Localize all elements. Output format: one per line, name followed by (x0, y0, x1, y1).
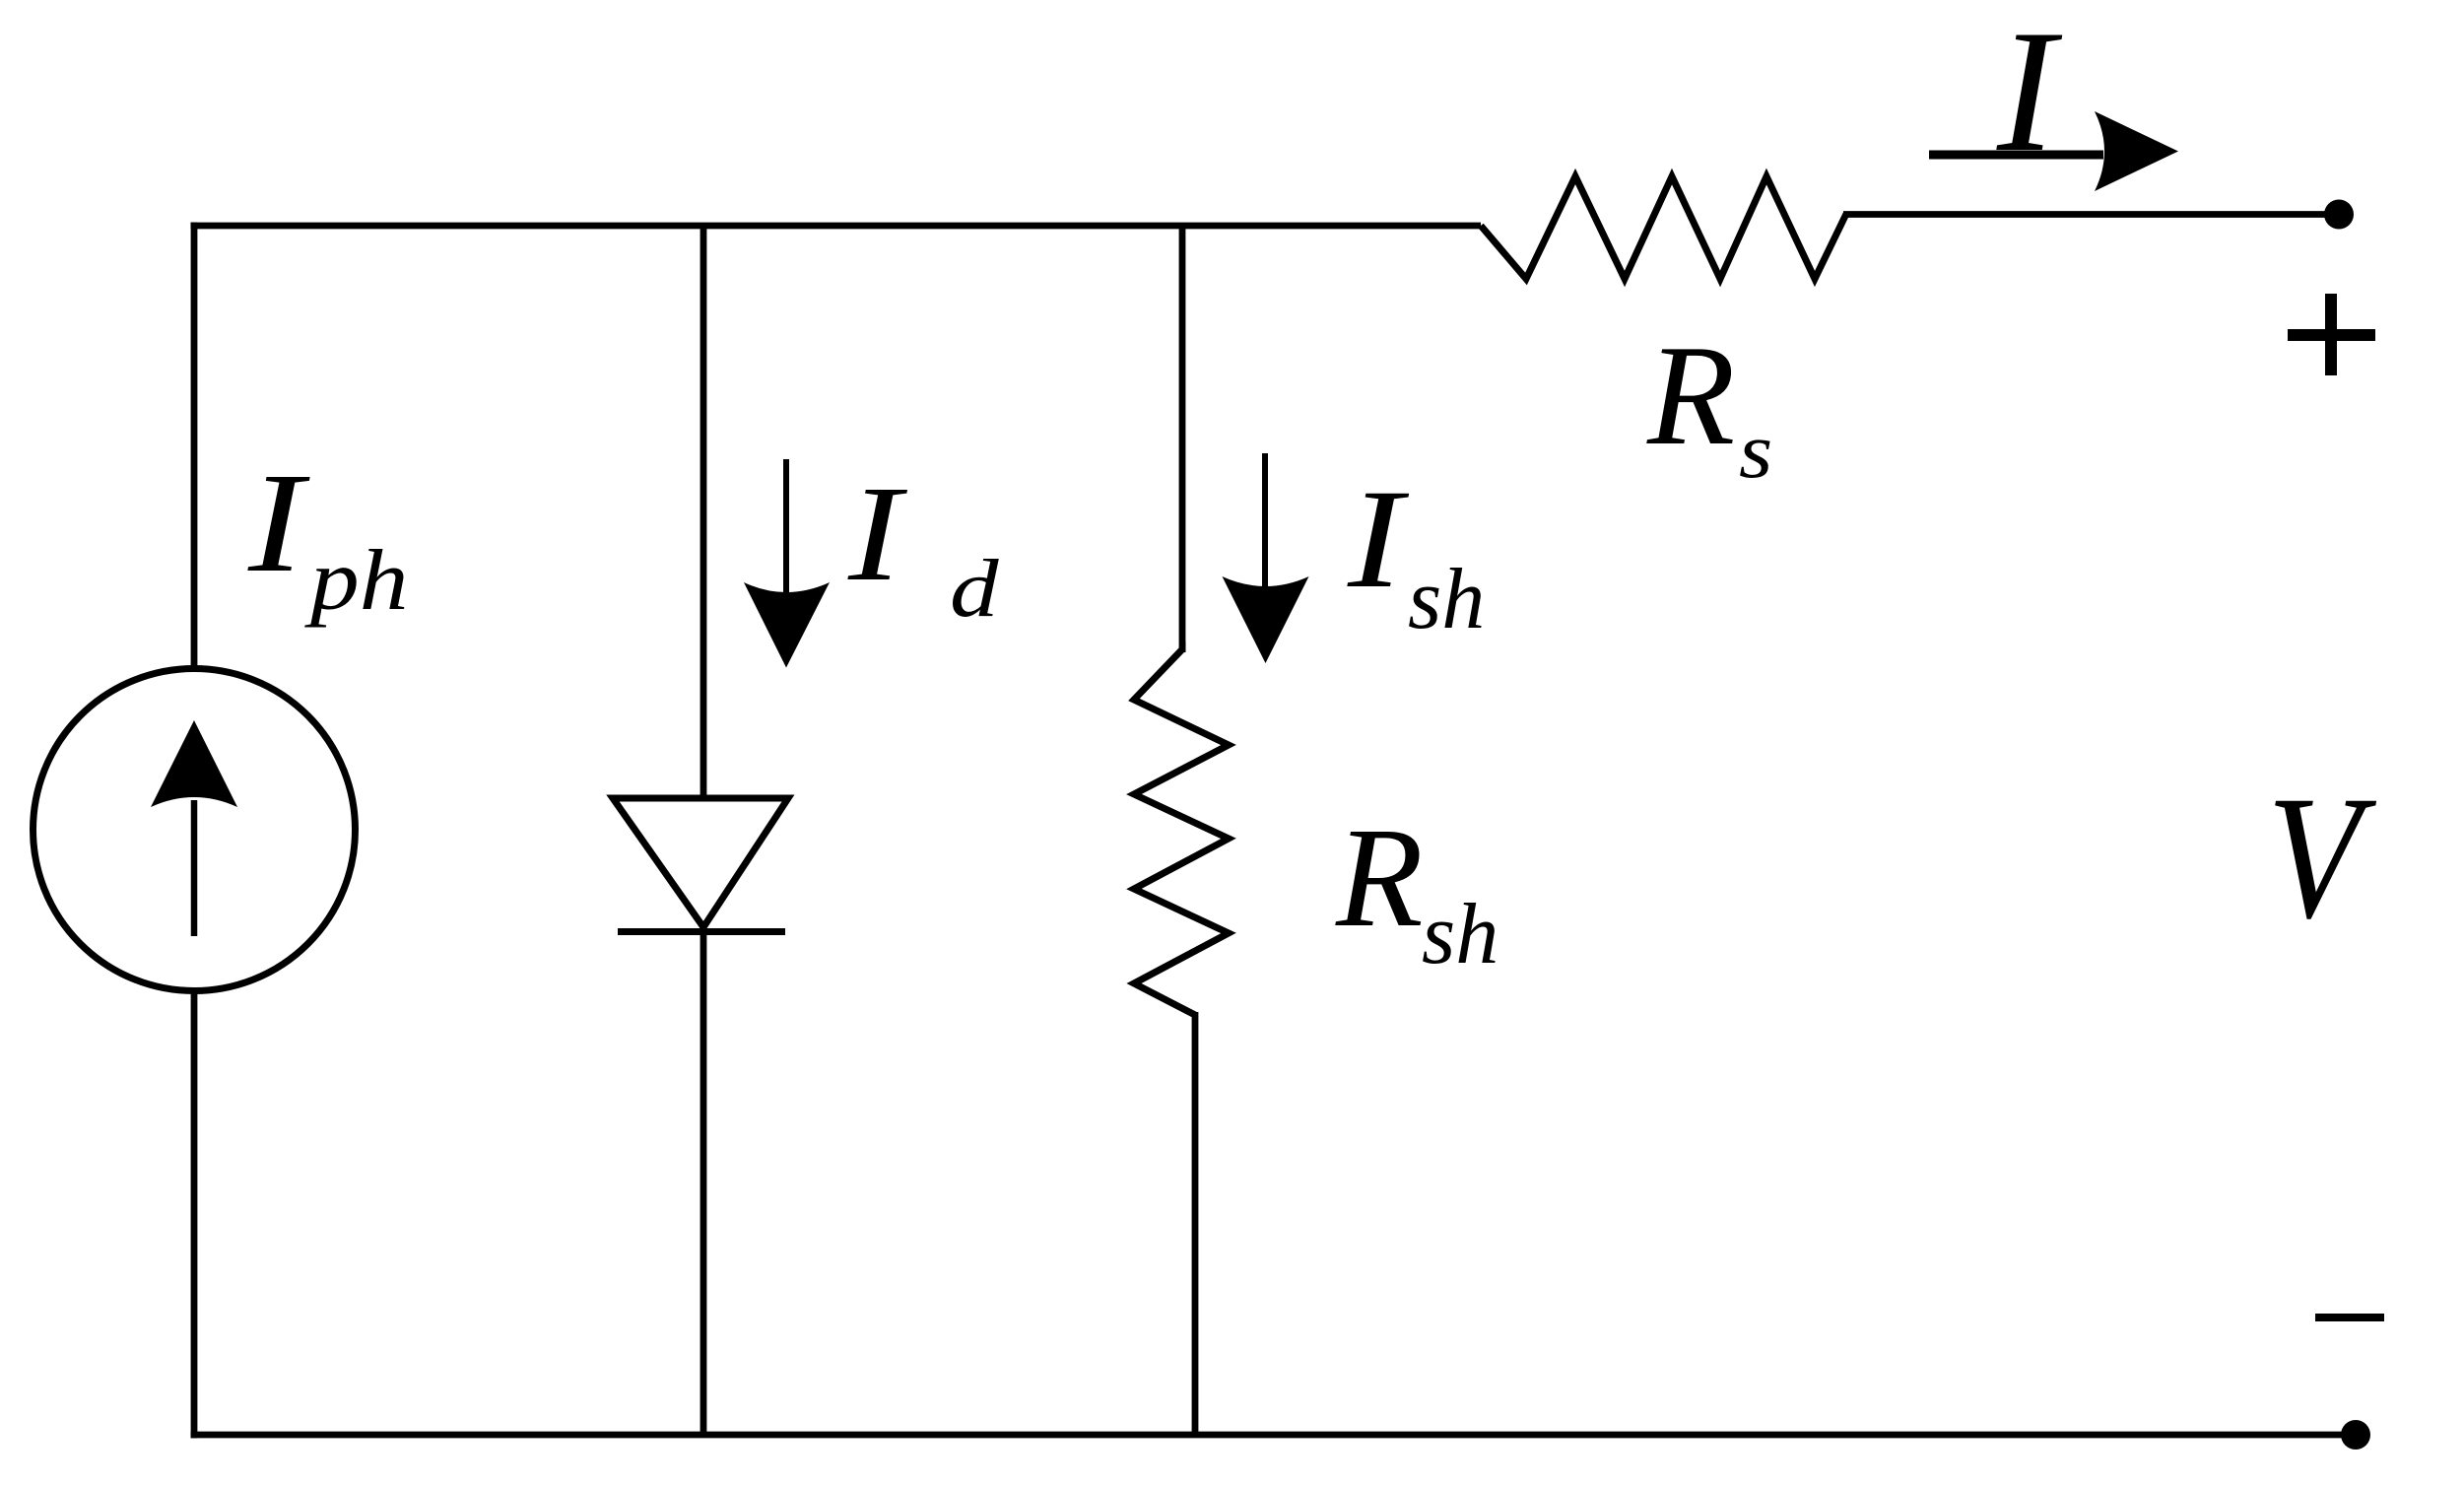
wire Rsh branch lower (1192, 1012, 1199, 1435)
svg-text:R: R (1335, 799, 1424, 957)
current source arrow shaft (191, 800, 198, 936)
svg-text:d: d (950, 542, 1000, 634)
svg-text:ph: ph (304, 532, 409, 628)
svg-text:I: I (247, 443, 310, 602)
node - terminal dot bottom (2341, 1420, 2370, 1450)
current source Iph circle (33, 669, 356, 991)
resistor Rs zigzag (1481, 176, 1846, 279)
arrow Ish shaft (1262, 453, 1268, 590)
diode D triangle (613, 798, 788, 927)
svg-text:I: I (1996, 0, 2063, 188)
arrow Ish head (1223, 576, 1309, 663)
wire top-right rail (1843, 211, 2339, 218)
wire bottom rail (191, 1432, 2357, 1439)
svg-text:sh: sh (1408, 552, 1485, 647)
minus sign (2315, 1314, 2384, 1321)
svg-text:I: I (1347, 460, 1410, 618)
plus sign (2288, 329, 2375, 341)
svg-text:I: I (847, 457, 907, 609)
current source arrowhead (151, 720, 237, 807)
wire top-left rail (191, 223, 1482, 230)
wire left vertical lower (191, 992, 198, 1438)
arrow I head (2095, 111, 2178, 191)
node + terminal dot top (2324, 200, 2354, 230)
svg-text:V: V (2267, 761, 2377, 956)
diode cathode bar (618, 928, 785, 935)
wire diode branch lower (700, 930, 707, 1435)
arrow I shaft (1929, 151, 2103, 160)
resistor Rsh zigzag (1134, 649, 1229, 1015)
svg-text:sh: sh (1422, 887, 1498, 982)
wire left vertical upper (191, 223, 198, 667)
svg-text:R: R (1646, 315, 1735, 475)
wire diode branch upper (700, 226, 707, 798)
wire Rsh branch upper (1179, 226, 1186, 652)
svg-text:s: s (1739, 408, 1772, 495)
arrow Id head (744, 582, 830, 668)
arrow Id shaft (783, 459, 789, 597)
